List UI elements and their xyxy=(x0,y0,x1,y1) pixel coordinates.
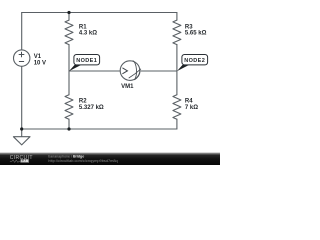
resistor R4 xyxy=(173,95,181,120)
watermark title text xyxy=(48,155,117,163)
svg-text:R1: R1 xyxy=(79,24,87,30)
node NODE2 flag pointer xyxy=(177,65,189,71)
wire bottom rail xyxy=(22,128,177,130)
resistor R1 xyxy=(65,20,73,44)
node NODE1 label box xyxy=(74,55,100,65)
node NODE2 label box xyxy=(182,55,208,65)
voltage source V1 xyxy=(14,50,30,66)
V1 minus sign xyxy=(19,61,24,63)
junction dot V1 / ground / bottom rail xyxy=(20,127,23,130)
wire top rail xyxy=(22,12,177,14)
svg-text:R2: R2 xyxy=(79,99,87,105)
svg-text:4.3 kΩ: 4.3 kΩ xyxy=(79,31,97,37)
resistor R3 xyxy=(173,20,181,44)
wire R4 leads xyxy=(176,71,178,129)
watermark CircuitLab logo xyxy=(10,155,33,163)
watermark bar xyxy=(0,153,220,166)
svg-text:R4: R4 xyxy=(185,99,193,105)
wire V1 top lead xyxy=(21,13,23,50)
node NODE1 flag pointer xyxy=(69,65,81,71)
svg-text:5.65 kΩ: 5.65 kΩ xyxy=(185,31,207,37)
resistor R2 xyxy=(65,95,73,120)
wire middle rail node1 to node2 xyxy=(69,70,177,72)
svg-text:7 kΩ: 7 kΩ xyxy=(185,105,198,111)
svg-text:http://circuitlab.com/c/cnqymp: http://circuitlab.com/c/cnqymp9bsd7m8q xyxy=(48,158,117,163)
wire R2 leads xyxy=(68,71,70,129)
ground xyxy=(21,129,23,137)
wire R1 leads xyxy=(68,13,70,72)
svg-text:NODE2: NODE2 xyxy=(184,58,205,64)
svg-text:10 V: 10 V xyxy=(34,61,46,67)
voltmeter VM1 xyxy=(120,61,141,81)
svg-text:NODE1: NODE1 xyxy=(76,58,97,64)
svg-text:V1: V1 xyxy=(34,54,42,60)
svg-text:5.327 kΩ: 5.327 kΩ xyxy=(79,105,104,111)
wire V1 bottom lead xyxy=(21,66,23,129)
svg-text:R3: R3 xyxy=(185,24,193,30)
svg-text:VM1: VM1 xyxy=(121,84,134,90)
junction dot R1 top rail xyxy=(67,11,70,14)
wire R3 leads xyxy=(176,13,178,72)
junction dot R2 bottom rail xyxy=(67,127,70,130)
svg-text:LAB: LAB xyxy=(21,159,29,163)
V1 plus sign xyxy=(19,52,25,62)
